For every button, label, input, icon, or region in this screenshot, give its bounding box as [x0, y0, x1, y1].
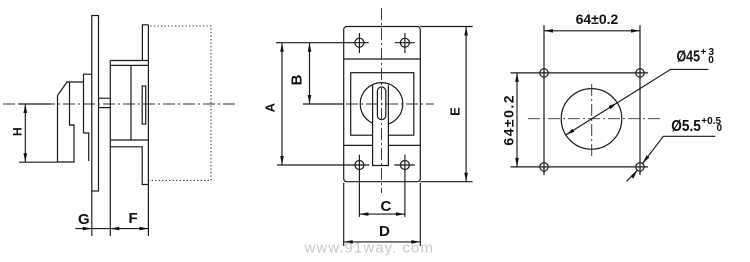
- drilling plan corner holes: [540, 69, 644, 171]
- dimension D: [344, 183, 421, 246]
- svg-text:www.91way. com: www.91way. com: [304, 240, 434, 257]
- front view knob circle: [360, 83, 403, 126]
- dimension E: [420, 27, 472, 182]
- svg-text:64±0.2: 64±0.2: [576, 11, 619, 27]
- front view vertical center line: [381, 8, 383, 193]
- front view mounting holes: [355, 38, 410, 169]
- dimension 64 left: [516, 73, 518, 167]
- svg-text:F: F: [129, 210, 138, 227]
- dimension A: [281, 43, 283, 165]
- svg-text:H: H: [11, 127, 25, 136]
- drilling plan square: [511, 25, 649, 175]
- svg-text:A: A: [263, 102, 278, 112]
- side view center line: [3, 103, 237, 105]
- dimension G and F: [75, 191, 148, 236]
- dimension H: [19, 104, 58, 162]
- side view mounting plate: [92, 16, 99, 192]
- side view shaft bushing notch: [142, 86, 146, 124]
- svg-text:Ø45: Ø45: [677, 49, 701, 66]
- svg-text:B: B: [289, 74, 306, 85]
- leader line for diameter 5.5: [627, 136, 716, 181]
- drilling plan big circle: [561, 89, 622, 150]
- dimension B: [309, 43, 311, 104]
- front view plate: [344, 27, 421, 182]
- svg-text:0: 0: [717, 123, 723, 134]
- leader line for diameter 45: [566, 69, 709, 135]
- front view horizontal center line: [306, 103, 434, 105]
- side view lever handle: [58, 74, 92, 162]
- side view inner body line: [130, 65, 132, 140]
- front view lever bar: [373, 85, 389, 166]
- side view body front face: [109, 61, 111, 237]
- svg-text:G: G: [78, 211, 90, 228]
- front view center square: [351, 73, 414, 136]
- svg-text:E: E: [447, 107, 462, 116]
- svg-text:C: C: [381, 198, 392, 215]
- svg-text:Ø5.5: Ø5.5: [671, 118, 701, 135]
- svg-text:0: 0: [708, 55, 714, 66]
- side view top flange and tab: [110, 25, 148, 66]
- side view phantom body outline: [148, 26, 211, 180]
- side view bottom flange and tab: [110, 140, 148, 185]
- svg-text:D: D: [379, 223, 390, 240]
- drilling plan center lines: [591, 84, 593, 158]
- dimension 64 top: [544, 30, 640, 32]
- dimension C: [359, 213, 405, 215]
- dimension A and B extension lines: [276, 43, 369, 165]
- side view bracket right edge: [147, 25, 149, 236]
- side view shaft: [99, 98, 111, 107]
- svg-text:64±0.2: 64±0.2: [500, 94, 516, 146]
- front view lever slot: [377, 87, 385, 120]
- front view hole center ticks: [359, 33, 414, 217]
